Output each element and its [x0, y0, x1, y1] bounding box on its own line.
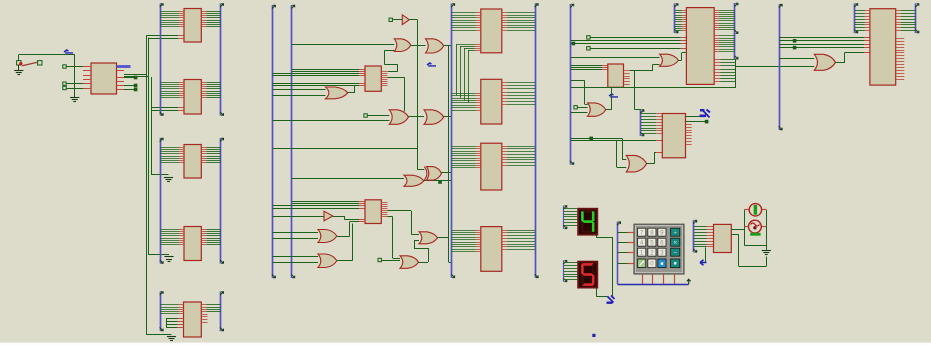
svg-text:÷: ÷: [673, 229, 677, 236]
svg-text:−: −: [673, 249, 677, 256]
svg-text:×: ×: [673, 239, 677, 246]
